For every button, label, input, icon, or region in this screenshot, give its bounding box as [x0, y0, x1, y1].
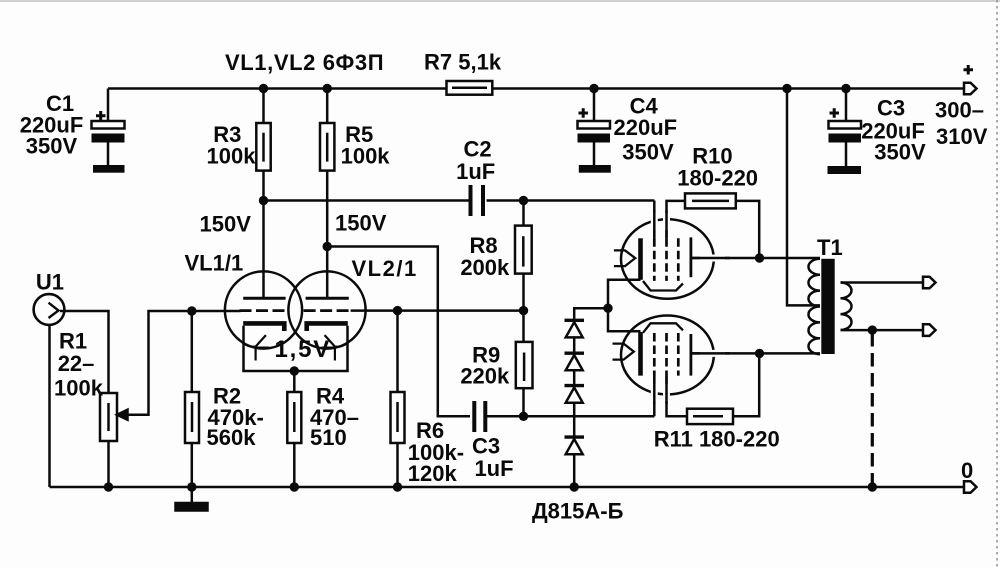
resistor R10 180-220 — [685, 193, 736, 208]
capacitor C2 1uF coupling — [471, 185, 484, 216]
junction node: rail C4 — [589, 84, 598, 93]
wire: transformer secondary top to output — [841, 281, 924, 284]
pentode V2 heater — [613, 344, 634, 360]
pentode V2 suppressor tie — [643, 323, 683, 333]
capacitor C4 220uF 350V electrolytic — [578, 108, 611, 173]
wire: rail to C4 positive lead — [593, 89, 596, 122]
wire: R8 bottom to grid node — [522, 274, 525, 311]
resistor R9 220k — [516, 342, 533, 388]
svg-text:C3: C3 — [877, 95, 905, 120]
svg-text:350V: 350V — [26, 134, 78, 159]
svg-text:U1: U1 — [36, 270, 64, 295]
resistor R2 470k-560k — [185, 392, 199, 443]
wire: pentode V1 cathode to common cathode node — [608, 280, 641, 308]
wire: VL2 anode node feedback line to C3 1uF — [327, 247, 470, 417]
input connector U1 — [34, 294, 65, 325]
resistor R11 180-220 — [687, 409, 733, 424]
wire: R8 top lead — [522, 201, 525, 226]
svg-text:100k: 100k — [54, 376, 104, 401]
triode VL1/1 anode bar — [243, 297, 285, 300]
wire: +B top rail left segment — [108, 87, 447, 90]
triode VL1/1 cathode — [243, 323, 284, 331]
pentode V1 envelope — [621, 219, 714, 299]
junction node: grid wire / R6 — [393, 306, 402, 315]
capacitor C3 1uF coupling — [474, 401, 485, 432]
svg-text:Д815А-Б: Д815А-Б — [532, 499, 624, 524]
pentode V1 grids dashed — [654, 238, 678, 281]
wire: pentode V2 anode to transformer primary bottom — [691, 352, 820, 355]
wire: C3 right plate to pentode V2 grid g1 — [487, 415, 654, 418]
svg-text:560k: 560k — [207, 425, 257, 450]
border artifact lines — [0, 0, 1000, 2]
wire: VL1/1 anode lead — [262, 201, 265, 298]
pentode V2 cathode bar — [638, 332, 643, 376]
junction node: rail zener — [570, 482, 579, 491]
junction node: rail R6 — [393, 482, 402, 491]
svg-text:C3: C3 — [472, 433, 500, 458]
junction node: cathode box / R4 — [290, 366, 299, 375]
wire: transformer secondary bottom to output — [841, 329, 924, 332]
transformer T1 secondary winding — [841, 283, 852, 330]
wire: R5 bottom to VL2/1 anode node — [326, 171, 329, 247]
terminal arrow 0V — [964, 481, 977, 493]
junction node: R11 / anode — [755, 349, 764, 358]
wire: R9 bottom to C3 node — [522, 388, 525, 416]
junction node: rail R2 ground — [187, 482, 196, 491]
wire: zener chain segment VD3-VD4 crossing grid wire — [573, 403, 576, 436]
potentiometer R1 wiper arrow — [117, 410, 128, 420]
junction node: R10 / anode — [755, 253, 764, 262]
wire: R4 bottom lead — [293, 443, 296, 487]
pentode V1 lead gaps — [654, 213, 725, 258]
cathode box with 1,5V — [244, 326, 348, 371]
svg-text:VL2/1: VL2/1 — [352, 256, 418, 281]
wire: rail to C3 350V positive lead — [845, 89, 848, 122]
junction node: rail R3 — [259, 84, 268, 93]
wire: pentode V2 cathode to common cathode node — [608, 308, 641, 331]
wire: pentode V1 anode to transformer primary top — [692, 257, 820, 260]
wire: rail to R5 top — [326, 89, 329, 124]
svg-text:350V: 350V — [874, 140, 926, 165]
svg-text:0: 0 — [961, 458, 973, 483]
wire: pentode V2 g1 lead down — [653, 376, 656, 417]
wire: zener chain segment VD2-VD3 — [573, 371, 576, 385]
terminal arrow secondary bottom — [923, 324, 936, 336]
junction node: rail dashed return — [868, 482, 877, 491]
zener diode VD4 — [565, 437, 585, 454]
triode VL1/1 envelope — [225, 271, 302, 348]
wire: R6 top lead — [396, 311, 399, 392]
wire: cathode node to zener chain top — [574, 308, 608, 319]
wire: R1 bottom lead — [107, 441, 110, 487]
wire: R2 top lead — [191, 311, 194, 392]
svg-text:1uF: 1uF — [456, 159, 495, 184]
svg-text:T1: T1 — [817, 235, 843, 260]
svg-text:350V: 350V — [622, 140, 674, 165]
svg-text:300–: 300– — [935, 98, 984, 123]
junction node: grid / R2 — [187, 306, 196, 315]
triode VL2/1 envelope — [288, 271, 365, 348]
wire: 0V bottom rail — [50, 486, 965, 489]
triode VL2/1 cathode — [307, 323, 348, 331]
wire: rail to transformer primary centre tap — [787, 89, 820, 306]
wire: R4 top lead from cathode box — [293, 371, 296, 392]
wire: pentode V2 g2 lead to R11 — [667, 376, 688, 417]
potentiometer R1 22-100k body — [100, 393, 117, 441]
wire: R10 right lead to anode node — [736, 201, 759, 258]
terminal arrow +300-310V — [964, 83, 977, 95]
wire: R3 bottom to VL1/1 anode node — [262, 171, 265, 201]
wire: R2 ground stub — [191, 487, 194, 503]
pentode V2 lead gaps — [654, 353, 725, 401]
resistor R6 100k-120k — [391, 392, 405, 443]
pentode V1 cathode bar — [638, 238, 643, 279]
wire: R9 top lead — [522, 311, 525, 342]
wire: rail to R3 top — [262, 89, 265, 124]
svg-text:22–: 22– — [58, 351, 95, 376]
junction node: rail R4 — [290, 482, 299, 491]
wire: VL2/1 grid wire to R8/R9 node — [351, 309, 524, 312]
triode VL1/1 grid dashed — [240, 309, 288, 312]
wire: U1 output to R1 top — [60, 311, 109, 393]
pentode V1 anode bar — [690, 237, 693, 277]
wire: R6 bottom lead — [396, 443, 399, 487]
junction node: R8 / R9 grid — [519, 306, 528, 315]
wire: pentode V1 g2 lead to R10 — [667, 201, 686, 238]
resistor R5 100k — [320, 123, 334, 171]
junction node: rail centre tap — [782, 84, 791, 93]
junction node: rail C3 — [841, 84, 850, 93]
svg-text:R11 180-220: R11 180-220 — [654, 427, 780, 452]
wire: R1 wiper to VL1/1 grid — [126, 311, 241, 415]
svg-text:100k: 100k — [207, 144, 257, 169]
svg-text:150V: 150V — [200, 211, 252, 236]
svg-text:R1: R1 — [59, 329, 87, 354]
transformer T1 primary winding — [808, 259, 820, 354]
wire: VL1 anode node to C2 left plate — [264, 199, 470, 202]
wire: zener chain bottom to 0 rail — [573, 455, 576, 488]
wire: VL2/1 anode lead — [326, 247, 329, 298]
resistor R7 5,1k — [447, 81, 493, 95]
junction node: pentode cathodes / zener — [603, 304, 612, 313]
zener diode VD3 — [565, 386, 585, 403]
wire: C2 right plate to pentode V1 grid g1 — [487, 199, 655, 202]
svg-text:220uF: 220uF — [614, 115, 678, 140]
pentode V2 grids dashed — [654, 333, 678, 376]
triode VL2/1 anode bar — [306, 297, 349, 300]
svg-text:180-220: 180-220 — [677, 165, 758, 190]
resistor R8 200k — [515, 226, 532, 274]
triode VL2/1 heater hook — [322, 335, 348, 360]
wire: zener chain segment VD1-VD2 — [573, 337, 576, 351]
junction node: C2 / R8 / g1 — [519, 196, 528, 205]
wire: R11 right lead to anode node — [733, 353, 759, 416]
wire: R2 bottom lead — [191, 443, 194, 487]
capacitor C3 220uF 350V electrolytic — [828, 108, 862, 174]
svg-text:100k: 100k — [341, 144, 391, 169]
wire: +B top rail right segment to + terminal — [492, 87, 964, 90]
svg-text:1,5V: 1,5V — [275, 336, 332, 363]
pentode V1 suppressor tie — [643, 281, 683, 291]
triode VL1/1 heater hook — [243, 335, 269, 360]
triode VL2/1 grid dashed — [304, 309, 351, 312]
capacitor C1 220uF 350V electrolytic — [92, 111, 125, 173]
svg-text:VL1/1: VL1/1 — [185, 251, 244, 276]
junction node: VL2 anode / R5 / feedback — [323, 242, 332, 251]
zener diode VD2 — [565, 353, 585, 370]
junction node: R9 / C3 / g1 — [519, 412, 528, 421]
svg-text:220k: 220k — [460, 363, 510, 388]
pentode V1 lead overdraw — [654, 210, 730, 258]
svg-text:1uF: 1uF — [474, 456, 513, 481]
resistor R4 470-510 — [287, 392, 301, 443]
svg-text:120k: 120k — [408, 461, 458, 486]
wire: U1 ground lead — [48, 325, 51, 487]
svg-text:510: 510 — [310, 425, 347, 450]
svg-text:R7 5,1k: R7 5,1k — [424, 50, 502, 75]
junction node: VL1 anode / R3 / C2 — [259, 196, 268, 205]
pentode V2 lead overdraw — [654, 353, 730, 404]
pentode V1 heater — [614, 250, 635, 266]
svg-text:C2: C2 — [464, 137, 492, 162]
svg-text:310V: 310V — [936, 124, 988, 149]
junction node: rail R5 — [323, 84, 332, 93]
resistor R3 100k — [256, 123, 270, 171]
zener diode VD1 — [565, 320, 585, 337]
svg-text:VL1,VL2 6Ф3П: VL1,VL2 6Ф3П — [225, 50, 384, 75]
pentode V2 envelope — [621, 316, 714, 395]
wire: dashed common return from secondary — [871, 333, 874, 483]
pentode V2 anode bar — [690, 334, 693, 376]
terminal arrow secondary top — [923, 277, 936, 289]
transformer T1 core — [821, 259, 834, 354]
svg-text:200k: 200k — [460, 255, 510, 280]
wire: pentode V1 g1 lead down into tube — [653, 201, 656, 239]
plus sign at output terminal — [964, 65, 974, 75]
junction node: secondary / dashed return — [868, 325, 877, 334]
ground symbol below R2 — [176, 503, 208, 511]
svg-text:150V: 150V — [335, 210, 387, 235]
wire: C1 positive lead from rail — [107, 89, 110, 122]
junction node: rail R1 — [104, 482, 113, 491]
